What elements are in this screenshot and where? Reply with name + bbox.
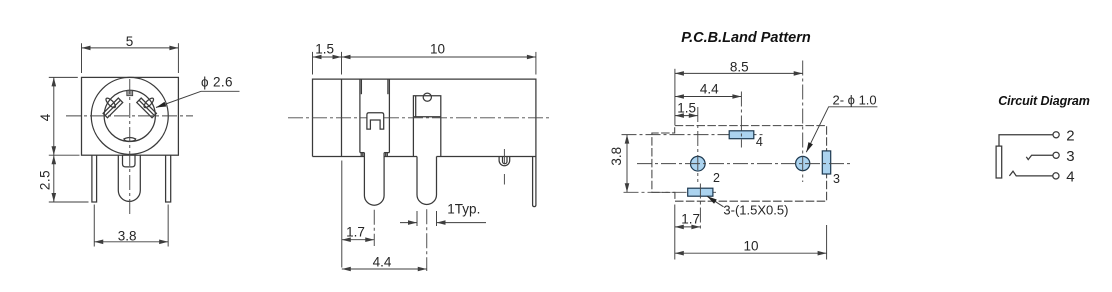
outer circle [91,77,168,154]
terminal 2 [1053,132,1059,138]
svg-text:1.5: 1.5 [315,41,334,56]
bottom lug [124,138,136,142]
pin 2 box inner line [415,96,417,117]
terminal 3 [1053,152,1059,158]
svg-text:1Typ.: 1Typ. [447,202,480,217]
dim 1.7 pcb [675,226,701,228]
dim 3.8 pcb [626,135,628,193]
contact clip [367,113,384,129]
svg-text:1.5: 1.5 [677,101,696,116]
slot 1 left wall [359,79,361,153]
pin 1 barbs [361,153,387,157]
dim 1.5 [313,56,342,58]
inner circle [104,90,155,141]
svg-text:2: 2 [713,171,720,185]
body outline [313,79,536,156]
dim 10 [342,56,536,58]
svg-text:Circuit Diagram: Circuit Diagram [998,94,1090,108]
centerline vertical [129,79,131,214]
right lug pin inner [503,157,508,164]
center bushing [123,155,136,167]
centerline pad hole right vertical [802,61,804,183]
dim 4.4 pcb [675,96,742,98]
svg-text:3: 3 [1066,148,1074,165]
centerline horizontal [66,115,193,117]
wire pin2 [999,135,1053,146]
jack sleeve contact [996,146,1002,178]
svg-text:P.C.B.Land Pattern: P.C.B.Land Pattern [681,30,811,46]
label phi2.6 underline [201,90,240,92]
center pin outer [118,155,140,201]
pin 2 pillar [413,96,440,157]
right lug centerlines [503,149,505,164]
centerline pad2 horizontal [624,191,717,193]
svg-text:2- ϕ 1.0: 2- ϕ 1.0 [833,92,877,107]
terminal 4 [1053,173,1059,179]
right pin [166,155,171,202]
hole pad left [691,156,706,171]
dim 1.7 [342,239,374,241]
svg-text:4: 4 [756,135,763,149]
dim 1Typ arrows [400,222,417,224]
label phi2.6 leader [156,91,201,107]
pad 4 [729,131,754,139]
pin1 centerline ext [373,210,375,246]
dim 2.5 [53,155,55,202]
front section divider [341,79,343,156]
svg-text:3: 3 [833,172,840,186]
svg-text:2: 2 [1066,128,1074,145]
right lug pin outer [499,157,510,166]
centerline horizontal main [637,163,851,165]
svg-text:10: 10 [430,41,445,56]
pin2 centerline ext [426,209,428,271]
dim 1.7 ext line [341,161,343,268]
left contact [97,92,122,117]
left pin [92,155,97,202]
body bottom edge segments [313,156,536,158]
dim 8.5 [675,72,803,74]
dim 5 ext lines [81,43,83,73]
top tab [127,90,133,95]
svg-text:10: 10 [744,239,759,254]
right contact [137,92,162,117]
dim 5 [82,47,179,49]
dim 10 pcb [675,252,827,254]
centerline pad2 vertical [699,184,701,230]
dim 2.5 ext lines [49,154,80,156]
dim ext left top [674,69,676,125]
dim 4.4 [342,268,427,270]
hole pad right [796,156,810,170]
dim ext left bottom [674,205,676,260]
pad 2 [688,188,713,196]
dim ext right bottom [826,225,828,260]
centerline pad4 horizontal [622,134,763,136]
dim 10 ext line [535,52,537,75]
svg-text:4.4: 4.4 [373,254,392,269]
svg-text:4: 4 [38,113,53,121]
label 2-phi1.0 leader [806,107,877,152]
svg-text:ϕ 2.6: ϕ 2.6 [201,74,233,89]
centerline pad4 vertical [740,92,742,148]
panel strip [533,157,536,207]
body square [82,77,179,155]
dim 1Typ ext lines [416,211,418,226]
dim 3.8 ext lines [93,205,95,247]
svg-text:3-(1.5X0.5): 3-(1.5X0.5) [723,202,788,217]
dim 1.5 ext lines [312,52,314,75]
pin 2 [417,157,437,205]
centerline horizontal [288,117,550,119]
slot 1 inner ticks [360,79,362,94]
pin 2 box bottom [413,116,440,118]
svg-text:1.7: 1.7 [681,212,700,227]
svg-text:8.5: 8.5 [730,59,749,74]
tip spring pin4 [1009,171,1053,176]
svg-text:1.7: 1.7 [346,225,365,240]
dim 1.5 pcb [675,115,698,117]
svg-text:3.8: 3.8 [609,147,624,166]
slot 1 right wall [388,79,390,153]
label 3-(1.5X0.5) leader [707,196,724,207]
svg-text:4: 4 [1066,168,1074,185]
pin 1 [364,153,384,206]
pin 2 box circle [423,93,431,101]
outline [652,126,827,202]
slot 1 steps [360,152,365,154]
svg-text:5: 5 [126,34,134,49]
svg-text:4.4: 4.4 [700,82,719,97]
dim 4 [53,77,55,155]
switch contact pin3 [1026,155,1053,159]
svg-text:2.5: 2.5 [37,170,52,190]
centerline pad1 vertical [697,107,699,182]
dim 4 ext line [49,76,78,78]
dim 3.8 [94,241,168,243]
pad 3 [822,151,830,174]
svg-text:3.8: 3.8 [118,228,137,243]
